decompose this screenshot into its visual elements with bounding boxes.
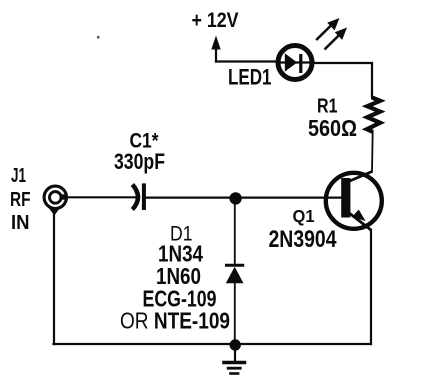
svg-text:OR NTE-109: OR NTE-109 [120,308,230,334]
svg-text:Q1: Q1 [293,206,315,226]
svg-text:J1: J1 [11,165,26,187]
svg-text:RF: RF [10,189,31,211]
svg-text:IN: IN [11,212,30,234]
svg-text:LED1: LED1 [228,65,272,90]
svg-text:330pF: 330pF [114,149,165,174]
svg-text:+ 12V: + 12V [192,9,239,32]
svg-text:560Ω: 560Ω [308,115,357,141]
svg-text:2N3904: 2N3904 [269,226,338,253]
